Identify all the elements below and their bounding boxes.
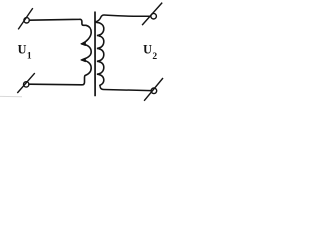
secondary lead + wire bottom-right	[100, 85, 151, 90]
scan artifact faint line	[0, 95, 22, 97]
secondary cusp ink blob 4	[97, 73, 100, 76]
terminal TR	[142, 3, 162, 26]
secondary cusp ink blob 1	[97, 34, 100, 37]
svg-text:2: 2	[152, 52, 157, 62]
svg-text:U: U	[18, 43, 27, 57]
secondary winding L2	[96, 22, 104, 85]
core	[94, 12, 96, 97]
secondary lead + wire top-right	[96, 15, 151, 22]
svg-text:U: U	[143, 43, 152, 57]
secondary cusp ink blob 3	[97, 60, 100, 63]
primary cusp ink blob 2	[81, 58, 86, 62]
terminal TL	[18, 8, 33, 29]
secondary cusp ink blob 2	[97, 47, 100, 50]
wire top-left + primary winding L1 + wire bottom-left	[29, 19, 91, 85]
svg-text:1: 1	[27, 51, 32, 61]
terminal BL	[17, 73, 35, 93]
primary cusp ink blob 1	[81, 42, 86, 46]
terminal BR	[144, 78, 163, 101]
